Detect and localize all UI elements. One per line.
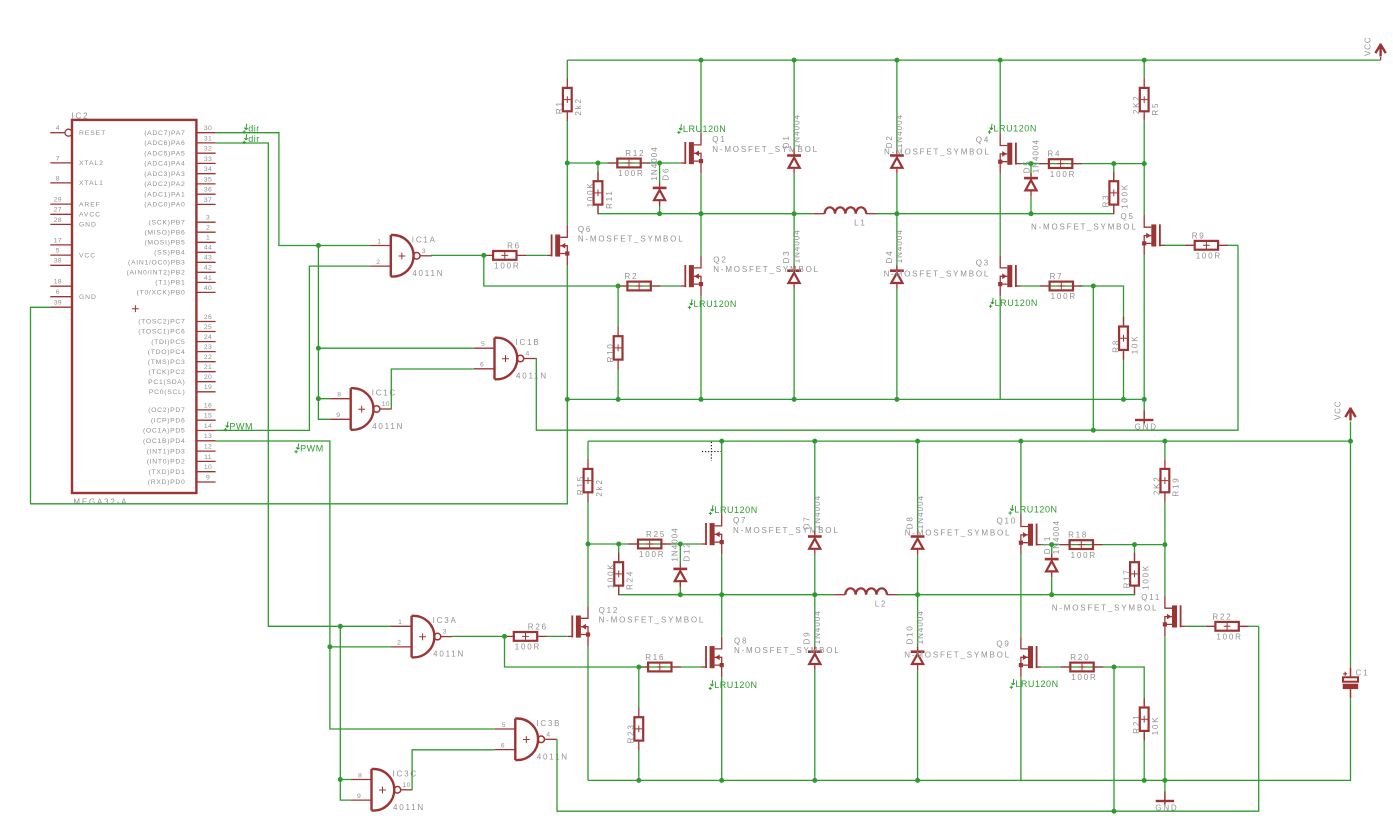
svg-text:N-MOSFET_SYMBOL: N-MOSFET_SYMBOL — [884, 147, 991, 156]
svg-text:IC3B: IC3B — [536, 719, 561, 728]
svg-text:LRU120N: LRU120N — [995, 298, 1038, 308]
svg-text:R5: R5 — [1151, 102, 1160, 116]
svg-text:(TMS)PC3: (TMS)PC3 — [148, 359, 186, 366]
svg-text:PC0(SCL): PC0(SCL) — [149, 389, 186, 396]
svg-text:(ADC5)PA5: (ADC5)PA5 — [144, 150, 185, 157]
svg-text:1N4004: 1N4004 — [813, 495, 822, 529]
svg-text:38: 38 — [54, 258, 62, 265]
svg-text:(ADC4)PA4: (ADC4)PA4 — [144, 161, 185, 168]
svg-text:30: 30 — [204, 125, 212, 132]
svg-text:2: 2 — [397, 640, 401, 647]
svg-text:N-MOSFET_SYMBOL: N-MOSFET_SYMBOL — [713, 265, 820, 274]
svg-text:1N4004: 1N4004 — [792, 229, 801, 263]
svg-text:(ADC2)PA2: (ADC2)PA2 — [144, 181, 185, 188]
svg-text:MEGA32-A: MEGA32-A — [73, 498, 128, 507]
svg-text:(AIN1/OC0)PB3: (AIN1/OC0)PB3 — [128, 260, 185, 267]
svg-text:Q7: Q7 — [733, 516, 747, 525]
svg-text:GND: GND — [1135, 423, 1158, 432]
svg-text:(TCK)PC2: (TCK)PC2 — [149, 369, 186, 376]
svg-text:XTAL1: XTAL1 — [79, 180, 104, 187]
svg-text:10: 10 — [204, 464, 212, 471]
svg-text:IC3C: IC3C — [393, 769, 418, 778]
svg-text:(ICP)PD6: (ICP)PD6 — [151, 417, 186, 424]
svg-text:1N4004: 1N4004 — [813, 610, 822, 644]
svg-text:R18: R18 — [1068, 531, 1088, 540]
svg-text:AREF: AREF — [79, 201, 101, 208]
svg-text:Q10: Q10 — [997, 516, 1018, 525]
svg-text:100R: 100R — [1071, 551, 1097, 560]
svg-text:LRU120N: LRU120N — [683, 124, 726, 134]
svg-text:dir: dir — [248, 124, 260, 134]
svg-text:R4: R4 — [1047, 150, 1061, 159]
svg-text:L1: L1 — [854, 219, 867, 228]
svg-text:100R: 100R — [494, 262, 520, 271]
svg-text:33: 33 — [204, 156, 212, 163]
svg-text:(AIN0/INT2)PB2: (AIN0/INT2)PB2 — [127, 270, 186, 277]
svg-text:VCC: VCC — [79, 252, 96, 259]
svg-text:21: 21 — [204, 364, 212, 371]
svg-text:12: 12 — [204, 444, 212, 451]
svg-text:18: 18 — [54, 279, 62, 286]
svg-text:(ADC1)PA1: (ADC1)PA1 — [144, 191, 185, 198]
svg-text:R15: R15 — [576, 475, 585, 495]
svg-text:R23: R23 — [627, 723, 636, 743]
svg-text:31: 31 — [204, 135, 212, 142]
svg-text:N-MOSFET_SYMBOL: N-MOSFET_SYMBOL — [1052, 604, 1159, 613]
svg-text:IC2: IC2 — [72, 112, 90, 121]
svg-text:1N4004: 1N4004 — [916, 610, 925, 644]
svg-text:100K: 100K — [1141, 564, 1150, 590]
svg-text:29: 29 — [54, 197, 62, 204]
svg-text:6: 6 — [480, 362, 484, 369]
svg-text:4011N: 4011N — [516, 372, 548, 381]
svg-text:41: 41 — [204, 275, 212, 282]
svg-text:Q1: Q1 — [712, 135, 726, 144]
svg-text:R3: R3 — [1102, 194, 1111, 208]
svg-text:(OC1B)PD4: (OC1B)PD4 — [143, 438, 186, 445]
svg-text:N-MOSFET_SYMBOL: N-MOSFET_SYMBOL — [734, 646, 841, 655]
svg-text:17: 17 — [54, 237, 62, 244]
svg-text:R12: R12 — [625, 149, 645, 158]
svg-text:Q9: Q9 — [996, 640, 1010, 649]
svg-text:R20: R20 — [1070, 653, 1090, 662]
svg-text:(TOSC2)PC7: (TOSC2)PC7 — [138, 319, 185, 326]
svg-text:(OC2)PD7: (OC2)PD7 — [148, 407, 185, 414]
svg-text:R2: R2 — [625, 272, 639, 281]
svg-text:100R: 100R — [618, 169, 644, 178]
svg-text:(ADC6)PA6: (ADC6)PA6 — [144, 140, 185, 147]
svg-text:AVCC: AVCC — [79, 212, 101, 219]
svg-text:(INT0)PD2: (INT0)PD2 — [147, 459, 186, 466]
svg-text:Q2: Q2 — [713, 256, 727, 265]
svg-text:N-MOSFET_SYMBOL: N-MOSFET_SYMBOL — [578, 235, 685, 244]
svg-text:26: 26 — [204, 314, 212, 321]
svg-text:LRU120N: LRU120N — [994, 124, 1037, 134]
svg-text:1: 1 — [206, 235, 210, 242]
svg-text:8: 8 — [337, 392, 341, 399]
svg-text:N-MOSFET_SYMBOL: N-MOSFET_SYMBOL — [884, 269, 991, 278]
svg-text:4011N: 4011N — [393, 803, 425, 812]
svg-text:43: 43 — [204, 255, 212, 262]
svg-text:3: 3 — [443, 629, 447, 636]
svg-text:4: 4 — [56, 125, 60, 132]
svg-text:1N4004: 1N4004 — [792, 114, 801, 148]
svg-text:D12: D12 — [682, 542, 691, 562]
svg-text:9: 9 — [357, 793, 361, 800]
svg-text:10: 10 — [403, 782, 411, 789]
svg-text:R17: R17 — [1122, 568, 1131, 588]
svg-text:19: 19 — [204, 384, 212, 391]
svg-text:5: 5 — [502, 722, 506, 729]
svg-text:RESET: RESET — [79, 130, 106, 137]
svg-text:4011N: 4011N — [372, 422, 404, 431]
svg-text:LRU120N: LRU120N — [694, 299, 737, 309]
svg-text:3: 3 — [422, 248, 426, 255]
svg-text:(TDO)PC4: (TDO)PC4 — [148, 349, 186, 356]
svg-text:PWM: PWM — [229, 421, 253, 431]
svg-text:11: 11 — [204, 454, 212, 461]
svg-text:13: 13 — [204, 433, 212, 440]
svg-text:100K: 100K — [1121, 183, 1130, 209]
svg-text:D10: D10 — [906, 624, 915, 644]
svg-text:Q3: Q3 — [976, 259, 990, 268]
svg-text:4: 4 — [546, 731, 550, 738]
svg-text:44: 44 — [204, 245, 212, 252]
svg-text:D6: D6 — [662, 167, 671, 181]
svg-text:4011N: 4011N — [433, 650, 465, 659]
svg-text:16: 16 — [204, 402, 212, 409]
svg-text:Q6: Q6 — [578, 225, 592, 234]
svg-text:D3: D3 — [782, 250, 791, 264]
svg-text:N-MOSFET_SYMBOL: N-MOSFET_SYMBOL — [599, 616, 706, 625]
svg-text:PC1(SDA): PC1(SDA) — [148, 379, 185, 386]
svg-text:XTAL2: XTAL2 — [79, 160, 104, 167]
svg-text:LRU120N: LRU120N — [714, 680, 757, 690]
svg-text:15: 15 — [204, 413, 212, 420]
svg-text:100R: 100R — [1216, 633, 1242, 642]
svg-text:3: 3 — [206, 215, 210, 222]
svg-text:R16: R16 — [645, 653, 665, 662]
svg-text:D9: D9 — [803, 631, 812, 645]
svg-text:2K2: 2K2 — [1153, 475, 1162, 495]
svg-text:(SCK)PB7: (SCK)PB7 — [149, 219, 186, 226]
svg-text:1N4004: 1N4004 — [916, 495, 925, 529]
svg-text:N-MOSFET_SYMBOL: N-MOSFET_SYMBOL — [712, 145, 819, 154]
svg-text:9: 9 — [336, 412, 340, 419]
svg-text:24: 24 — [204, 334, 212, 341]
svg-text:(OC1A)PD5: (OC1A)PD5 — [143, 428, 186, 435]
svg-text:2k2: 2k2 — [574, 97, 583, 115]
svg-text:(TDI)PC5: (TDI)PC5 — [151, 339, 185, 346]
svg-text:N-MOSFET_SYMBOL: N-MOSFET_SYMBOL — [733, 526, 840, 535]
svg-text:6: 6 — [501, 742, 505, 749]
svg-text:D2: D2 — [885, 134, 894, 148]
svg-text:36: 36 — [204, 187, 212, 194]
svg-text:1: 1 — [377, 238, 381, 245]
svg-text:N-MOSFET_SYMBOL: N-MOSFET_SYMBOL — [1031, 223, 1138, 232]
svg-text:PWM: PWM — [300, 443, 324, 453]
svg-text:20: 20 — [204, 374, 212, 381]
svg-text:1N4004: 1N4004 — [1032, 139, 1041, 173]
svg-text:VCC: VCC — [1334, 401, 1343, 420]
svg-text:2: 2 — [376, 259, 380, 266]
svg-text:37: 37 — [204, 197, 212, 204]
svg-text:(SS)PB4: (SS)PB4 — [154, 250, 185, 257]
svg-text:GND: GND — [1155, 804, 1178, 813]
svg-text:LRU120N: LRU120N — [1014, 505, 1057, 515]
svg-text:(T1)PB1: (T1)PB1 — [155, 280, 185, 287]
svg-text:IC3A: IC3A — [433, 616, 458, 625]
svg-text:(ADC7)PA7: (ADC7)PA7 — [144, 130, 185, 137]
svg-text:(MISO)PB6: (MISO)PB6 — [144, 229, 185, 236]
svg-text:100R: 100R — [1051, 292, 1077, 301]
svg-text:(ADC3)PA3: (ADC3)PA3 — [144, 171, 185, 178]
svg-text:4011N: 4011N — [537, 752, 569, 761]
svg-text:27: 27 — [54, 207, 62, 214]
svg-text:N-MOSFET_SYMBOL: N-MOSFET_SYMBOL — [904, 650, 1011, 659]
svg-text:4: 4 — [526, 351, 530, 358]
svg-text:10: 10 — [382, 401, 390, 408]
svg-text:39: 39 — [54, 300, 62, 307]
svg-text:40: 40 — [204, 285, 212, 292]
svg-text:2K2: 2K2 — [1132, 94, 1141, 114]
svg-text:2k2: 2k2 — [595, 478, 604, 496]
svg-text:LRU120N: LRU120N — [714, 505, 757, 515]
svg-text:Q12: Q12 — [599, 606, 620, 615]
svg-text:Q11: Q11 — [1141, 593, 1161, 602]
svg-text:R7: R7 — [1050, 272, 1064, 281]
svg-text:1N4004: 1N4004 — [1052, 520, 1061, 554]
svg-text:5: 5 — [56, 248, 60, 255]
svg-text:100R: 100R — [1050, 170, 1076, 179]
svg-text:R8: R8 — [1111, 339, 1120, 353]
svg-text:D8: D8 — [906, 515, 915, 529]
svg-text:1N4004: 1N4004 — [895, 114, 904, 148]
svg-text:VCC: VCC — [1364, 37, 1373, 56]
svg-text:R6: R6 — [507, 241, 521, 250]
svg-text:R25: R25 — [646, 530, 666, 539]
svg-text:28: 28 — [54, 217, 62, 224]
svg-text:N-MOSFET_SYMBOL: N-MOSFET_SYMBOL — [905, 528, 1012, 537]
svg-text:(MOSI)PB5: (MOSI)PB5 — [144, 240, 185, 247]
svg-text:Q8: Q8 — [734, 637, 748, 646]
svg-text:GND: GND — [79, 222, 97, 229]
svg-text:22: 22 — [204, 354, 212, 361]
svg-text:100K: 100K — [586, 182, 595, 208]
svg-text:100R: 100R — [1071, 673, 1097, 682]
svg-text:34: 34 — [204, 166, 212, 173]
svg-text:GND: GND — [79, 294, 97, 301]
svg-text:IC1A: IC1A — [412, 235, 437, 244]
svg-text:L2: L2 — [875, 600, 888, 609]
svg-text:8: 8 — [358, 772, 362, 779]
svg-text:10K: 10K — [1130, 335, 1139, 355]
svg-text:C1: C1 — [1356, 669, 1370, 678]
svg-text:7: 7 — [56, 155, 60, 162]
svg-text:LRU120N: LRU120N — [1015, 679, 1058, 689]
svg-text:100R: 100R — [1196, 252, 1222, 261]
svg-text:1: 1 — [398, 619, 402, 626]
svg-text:9: 9 — [206, 474, 210, 481]
svg-text:R19: R19 — [1172, 477, 1181, 497]
svg-text:R1: R1 — [555, 100, 564, 114]
svg-text:2: 2 — [206, 225, 210, 232]
svg-text:D4: D4 — [885, 250, 894, 264]
svg-text:10K: 10K — [1151, 716, 1160, 736]
svg-text:4011N: 4011N — [412, 269, 444, 278]
svg-text:(RXD)PD0: (RXD)PD0 — [148, 479, 186, 486]
svg-text:(TXD)PD1: (TXD)PD1 — [149, 469, 186, 476]
svg-text:dir: dir — [248, 134, 260, 144]
svg-text:35: 35 — [204, 176, 212, 183]
svg-text:R11: R11 — [605, 189, 614, 208]
svg-text:100K: 100K — [607, 563, 616, 589]
svg-text:(TOSC1)PC6: (TOSC1)PC6 — [138, 329, 185, 336]
svg-text:8: 8 — [56, 175, 60, 182]
svg-text:25: 25 — [204, 324, 212, 331]
svg-text:5: 5 — [481, 341, 485, 348]
svg-text:42: 42 — [204, 265, 212, 272]
svg-text:1N4004: 1N4004 — [895, 229, 904, 263]
svg-text:IC1C: IC1C — [372, 389, 397, 398]
svg-text:(ADC0)PA0: (ADC0)PA0 — [144, 202, 185, 209]
svg-text:R21: R21 — [1132, 714, 1141, 734]
svg-text:Q5: Q5 — [1121, 212, 1135, 221]
svg-text:23: 23 — [204, 344, 212, 351]
svg-text:(INT1)PD3: (INT1)PD3 — [147, 448, 186, 455]
svg-text:100R: 100R — [515, 643, 541, 652]
svg-text:32: 32 — [204, 146, 212, 153]
svg-text:14: 14 — [204, 423, 212, 430]
svg-text:R22: R22 — [1212, 612, 1232, 621]
svg-text:6: 6 — [56, 289, 60, 296]
svg-text:R26: R26 — [528, 622, 548, 631]
svg-text:IC1B: IC1B — [516, 338, 541, 347]
svg-text:100R: 100R — [639, 550, 665, 559]
svg-text:Q4: Q4 — [976, 135, 990, 144]
svg-text:R24: R24 — [626, 570, 635, 590]
svg-text:R10: R10 — [606, 342, 615, 362]
svg-text:(T0/XCK)PB0: (T0/XCK)PB0 — [137, 290, 186, 297]
svg-text:R9: R9 — [1192, 231, 1206, 240]
